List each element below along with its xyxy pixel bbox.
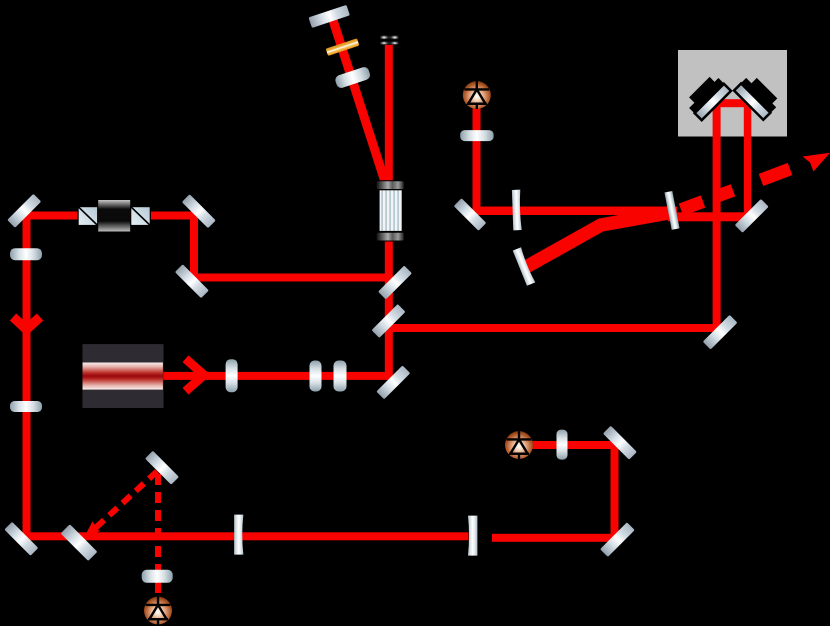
wire: dashed vertical to PD3 [155,474,161,597]
wire: dashed pickoff diagonal [96,471,158,528]
lens on left vertical beam upper [10,248,42,260]
orange attenuator plate [326,38,360,56]
mirror M8 pickoff [145,451,179,485]
tilted plate / etalon [664,191,679,230]
wire: beam vertical to photodiode PD1 [473,107,481,211]
arrow chevron down on left beam [13,317,40,330]
wire: beam thick diagonal to output [522,212,675,270]
lens on AOM arm [334,66,371,89]
curved mirror CM1 [512,190,522,231]
wire: beam short vertical x194 [190,213,198,279]
lens L1 [226,359,238,392]
wire: beam bottom horizontal B [492,534,616,542]
mirror M2 [182,194,216,228]
optical isolator: right polarizer cube [131,207,151,226]
beam dump (two bars) [380,35,398,45]
curved mirror CM3 [234,515,243,555]
mirror M14 AOM retro mirror [308,5,349,28]
mirror M6 laser turn [376,365,410,399]
wire: beam monitor horizontal right segment [668,212,752,221]
wire: dashed output beam dash 2 [717,190,734,196]
wire: beam vertical x614.5 [611,443,619,540]
mirror M12 [735,199,769,233]
wire: beam from laser horizontal [162,372,391,380]
mirror M13 corner to PD1 [454,198,487,231]
photodiode PD3 [144,597,172,625]
curved mirror CM4 [468,516,477,556]
laser head box [83,344,164,408]
mirror M11 right corner y328 [703,315,738,350]
wire: beam AOM vertical [385,44,393,378]
curved mirror CM2 pickoff [513,247,536,286]
mirror M7 bottom-left corner [4,522,38,556]
lens PL3 above PD3 [142,570,173,583]
mirror M3 [175,264,209,298]
wire: beam inside box horizontal [714,99,751,107]
AOM body [376,181,404,241]
piezo mirror box (gray enclosure) [678,50,787,137]
wire: beam left vertical [23,213,31,540]
lens on left vertical beam lower [10,401,42,412]
wire: beam horizontal to PD2 [531,441,616,449]
photodiode PD2 [505,431,533,459]
wire: dashed output beam dash 3 [761,169,790,180]
arrowhead on pickoff dashed line [85,522,100,537]
output arrowhead [803,153,830,172]
wire: beam top-left horizontal [22,212,196,220]
photodiode PD1 [463,81,491,109]
box mirror right assembly [734,73,781,120]
wire: beam vertical into gray box [713,101,721,330]
wire: beam isolator-to-AOM-corner horizontal [190,274,392,282]
mirror M1 top-left corner [7,194,41,228]
wire: beam long middle horizontal y328 [389,324,719,332]
wire: beam bottom horizontal A [22,532,469,540]
wire: beam monitor horizontal left segment [473,207,677,216]
arrow chevron on laser beam [186,359,205,391]
wire: beam vertical out of box [744,101,752,220]
lens L3 [334,361,347,392]
mirror M5 [372,304,406,338]
mirror M4 at AOM corner [378,266,412,300]
mirror M10 [603,426,637,460]
lens PL1 below PD1 [460,130,493,141]
wire: dashed output beam dash 1 [681,202,703,210]
optical isolator: left polarizer cube [78,207,98,226]
lens L4 before PD2 [557,430,568,460]
wire: beam AOM deflected diagonal [331,14,387,188]
box mirror left assembly [684,73,731,120]
beamsplitter plate BS [61,524,98,561]
lens L2 [310,361,322,392]
mirror M9 bottom-right corner [600,522,635,557]
optical isolator: Faraday rotator block [98,200,130,232]
